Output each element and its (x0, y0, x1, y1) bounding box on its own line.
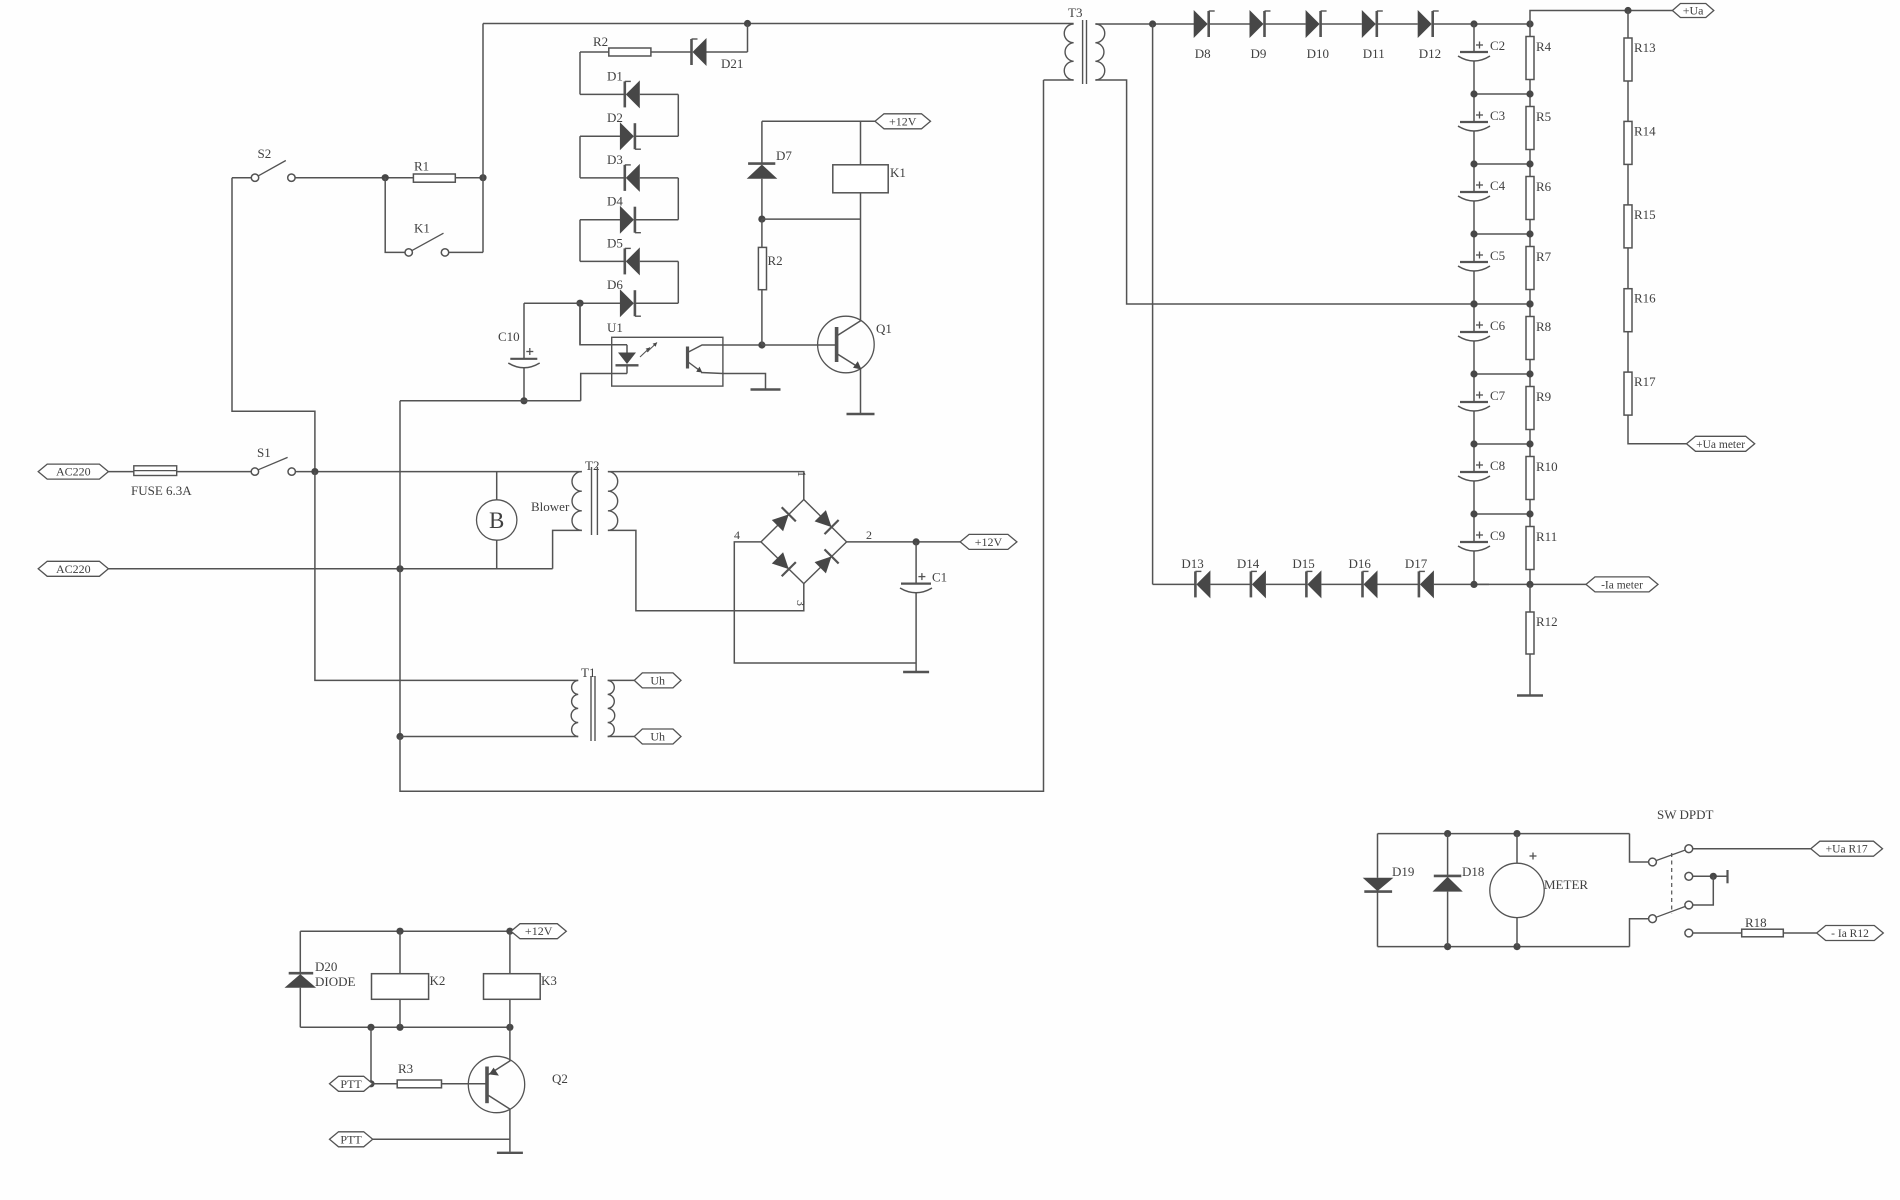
svg-text:D20: D20 (315, 959, 337, 974)
svg-text:4: 4 (734, 528, 740, 542)
svg-text:PTT: PTT (340, 1077, 362, 1091)
svg-text:R7: R7 (1536, 249, 1552, 264)
svg-text:FUSE 6.3A: FUSE 6.3A (131, 483, 192, 498)
svg-text:U1: U1 (607, 320, 623, 335)
svg-text:+12V: +12V (975, 535, 1003, 549)
svg-text:R4: R4 (1536, 39, 1552, 54)
svg-text:D13: D13 (1181, 556, 1203, 571)
svg-text:D2: D2 (607, 110, 623, 125)
svg-text:D12: D12 (1419, 46, 1441, 61)
svg-text:D7: D7 (776, 148, 792, 163)
svg-text:R13: R13 (1634, 40, 1656, 55)
svg-text:R15: R15 (1634, 207, 1656, 222)
svg-text:3: 3 (794, 600, 808, 606)
svg-text:SW DPDT: SW DPDT (1657, 807, 1714, 822)
svg-text:R12: R12 (1536, 614, 1558, 629)
svg-text:R3: R3 (398, 1061, 413, 1076)
svg-text:K1: K1 (414, 221, 430, 236)
svg-text:DIODE: DIODE (315, 974, 355, 989)
svg-text:D4: D4 (607, 194, 623, 209)
svg-text:+Ua: +Ua (1683, 4, 1704, 18)
svg-text:R9: R9 (1536, 389, 1551, 404)
svg-text:D10: D10 (1307, 46, 1329, 61)
svg-text:AC220: AC220 (56, 562, 91, 576)
svg-text:D17: D17 (1405, 556, 1428, 571)
svg-text:D14: D14 (1237, 556, 1260, 571)
svg-text:AC220: AC220 (56, 465, 91, 479)
svg-text:R16: R16 (1634, 291, 1656, 306)
svg-text:-Ia meter: -Ia meter (1601, 579, 1643, 591)
svg-text:T1: T1 (581, 665, 595, 680)
svg-text:Q2: Q2 (552, 1071, 568, 1086)
svg-text:D18: D18 (1462, 864, 1484, 879)
svg-text:+Ua R17: +Ua R17 (1826, 844, 1868, 856)
svg-text:C1: C1 (932, 570, 947, 585)
svg-text:K2: K2 (430, 973, 446, 988)
svg-text:C4: C4 (1490, 178, 1506, 193)
svg-text:R6: R6 (1536, 179, 1552, 194)
svg-text:Uh: Uh (650, 673, 665, 687)
svg-text:D11: D11 (1363, 46, 1385, 61)
svg-text:D3: D3 (607, 152, 623, 167)
svg-text:C2: C2 (1490, 38, 1505, 53)
svg-text:B: B (489, 508, 504, 533)
svg-text:C3: C3 (1490, 108, 1505, 123)
svg-text:Blower: Blower (531, 499, 570, 514)
svg-text:R17: R17 (1634, 374, 1656, 389)
svg-text:S2: S2 (258, 146, 272, 161)
svg-text:METER: METER (1544, 877, 1588, 892)
svg-text:Q1: Q1 (876, 321, 892, 336)
svg-text:R10: R10 (1536, 459, 1558, 474)
svg-text:R2: R2 (768, 253, 783, 268)
svg-text:1: 1 (795, 471, 809, 477)
svg-text:R18: R18 (1745, 915, 1767, 930)
svg-text:D5: D5 (607, 235, 623, 250)
svg-text:D1: D1 (607, 68, 623, 83)
svg-text:K1: K1 (890, 165, 906, 180)
svg-text:T3: T3 (1068, 5, 1082, 20)
svg-text:D15: D15 (1292, 556, 1314, 571)
svg-text:+Ua meter: +Ua meter (1696, 439, 1745, 451)
svg-text:R11: R11 (1536, 529, 1557, 544)
svg-text:D19: D19 (1392, 864, 1414, 879)
svg-text:C6: C6 (1490, 318, 1506, 333)
svg-text:+12V: +12V (525, 924, 553, 938)
svg-text:R14: R14 (1634, 123, 1656, 138)
svg-text:C10: C10 (498, 329, 520, 344)
svg-text:C9: C9 (1490, 528, 1505, 543)
svg-text:R1: R1 (414, 159, 429, 174)
svg-text:PTT: PTT (340, 1132, 362, 1146)
svg-text:+12V: +12V (889, 114, 917, 128)
svg-text:- Ia R12: - Ia R12 (1831, 928, 1869, 940)
svg-text:D8: D8 (1195, 46, 1211, 61)
svg-text:D16: D16 (1349, 556, 1372, 571)
svg-text:D9: D9 (1251, 46, 1267, 61)
svg-text:2: 2 (866, 528, 872, 542)
svg-text:R2: R2 (593, 34, 608, 49)
svg-text:C5: C5 (1490, 248, 1505, 263)
svg-text:D21: D21 (721, 56, 743, 71)
svg-text:D6: D6 (607, 277, 623, 292)
svg-text:S1: S1 (257, 445, 271, 460)
svg-text:C8: C8 (1490, 458, 1505, 473)
svg-text:R8: R8 (1536, 319, 1551, 334)
svg-text:Uh: Uh (650, 730, 665, 744)
svg-text:C7: C7 (1490, 388, 1506, 403)
svg-text:K3: K3 (541, 973, 557, 988)
svg-text:R5: R5 (1536, 109, 1551, 124)
